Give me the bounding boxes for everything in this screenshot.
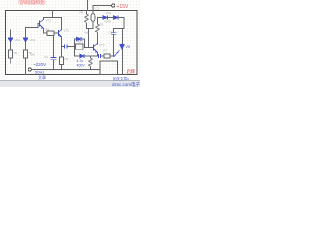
resistor box R1 [47,31,54,36]
svg-text:VD2: VD2 [30,38,36,42]
wire R2 box to rail [61,65,63,70]
wire VT2 emitter column [61,37,63,57]
wire top rail [44,17,62,19]
svg-text:C5: C5 [109,31,113,35]
wire right column to SCR [122,29,124,45]
footer white gap [0,76,140,81]
svg-text:R4: R4 [80,11,84,15]
wire block to VT3 base [85,47,94,49]
svg-text:dzsc.com电子: dzsc.com电子 [112,81,140,87]
wire branch2 mid [25,43,27,51]
wire cap row right [67,46,75,48]
svg-text:相关文章o: 相关文章o [113,76,129,81]
resistor box RL2 [24,50,28,58]
capacitor C4 [65,45,67,49]
svg-text:VT2: VT2 [64,29,70,33]
load box [100,61,118,75]
diode D1 [103,16,108,20]
wire diode right lead [81,38,85,40]
resistor zigzag R5 [96,24,100,33]
wire oval bottom [92,22,94,29]
resistor box R2 [60,57,64,65]
svg-text:VD4: VD4 [106,11,112,15]
transistor VT1 [40,20,44,29]
schematic border frame [6,11,138,75]
wire corner to cap113 [114,29,125,33]
capacitor C3 [51,58,57,60]
page background with dotted grid [0,0,140,80]
wire SCR cathode to border [122,49,124,74]
diode D2 [114,16,119,20]
capacitor C6 [98,54,100,58]
wire RC row segments [101,55,114,57]
footer separator line [0,79,140,82]
capacitor C5 [111,33,117,35]
wire VT1 emitter elbow to R1 [44,29,48,34]
terminal circle top [112,4,115,7]
svg-text:4.7u: 4.7u [77,59,84,63]
wire R4 top from border [86,11,88,15]
wire offpage vertical [87,0,89,11]
wire zigzag2 to VT3 collector [97,33,99,44]
input terminal circle [28,68,31,71]
thyristor VS [114,45,125,57]
svg-text:~220V: ~220V [33,62,46,67]
wire parallel block right node [84,39,86,47]
svg-text:文章: 文章 [38,74,46,80]
wire diode left lead [75,38,77,40]
svg-text:VD1: VD1 [15,38,21,42]
wire above border to terminal [93,6,112,11]
wire parallel block left node [75,39,81,56]
wire VT1 collector up [43,18,45,20]
bottom rail [32,69,101,71]
wire branch1 mid [10,43,12,51]
wire VT3 emitter down [97,53,99,57]
diode VD3 [77,37,82,41]
svg-text:R2: R2 [65,57,69,61]
junction dots [53,43,98,70]
oval component [91,14,95,22]
svg-text:R5: R5 [100,23,104,27]
svg-text:C3: C3 [44,55,48,59]
svg-text:C1: C1 [96,7,100,11]
wire oval top from border [92,11,94,14]
resistor box RL1 [9,50,13,58]
svg-text:R1: R1 [46,28,50,32]
resistor box R3 [76,44,84,49]
wire R1 drop branch [53,36,55,58]
wire diode row right corner [118,18,124,29]
wire node88 vertical [88,29,90,48]
wire R1 right to VT2 base [54,32,59,34]
svg-text:VS: VS [126,45,131,49]
svg-text:R7: R7 [104,49,108,53]
svg-text:50Hz: 50Hz [35,70,44,75]
diode VD5 [80,54,84,58]
wire between diodes [108,17,114,19]
svg-text:lab: lab [31,53,35,57]
svg-text:400V: 400V [77,64,86,68]
wire branch1 top [10,30,12,38]
svg-text:RL: RL [14,51,18,55]
footer gray band [0,81,140,87]
svg-text:4148: 4148 [104,20,111,24]
svg-text:+15V: +15V [117,4,129,10]
svg-text:VD3: VD3 [77,40,83,44]
zener VD2 [23,38,28,42]
wire feed from top border [52,11,54,18]
svg-text:lab: lab [85,31,89,35]
wire diode row left corner [98,18,104,25]
wire branch2 top elbow to VT1 base [26,24,40,38]
transistor VT2 [59,30,62,38]
wire zigzag3 leads [90,56,92,70]
wire C3 bottom to rail [53,60,55,70]
wire branch2 bottom to border [25,58,27,74]
small gray designator labels [14,7,113,62]
wire RC row left to zigzag3 [85,55,98,57]
wire R4 bottom join [87,24,94,29]
transistor VT3 [94,44,98,53]
svg-text:VT3: VT3 [99,43,105,47]
resistor zigzag R4 [85,14,89,23]
wire cap113 down [113,35,115,57]
resistor box R7 [104,54,110,58]
zener VD1 [8,38,13,42]
wire branch1 bottom [10,58,12,63]
svg-text:启辉: 启辉 [127,68,136,75]
wire VT2 collector column [61,18,63,30]
wire cap row left [62,46,64,48]
resistor zigzag R6 [89,58,93,67]
svg-text:VT1: VT1 [46,19,52,23]
